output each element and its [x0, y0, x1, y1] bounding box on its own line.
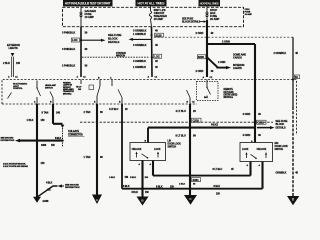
svg-text:WAGON: WAGON	[116, 55, 125, 58]
headlamp switch contacts	[8, 93, 12, 99]
svg-text:2 ORN: 2 ORN	[196, 69, 204, 73]
svg-text:S308: S308	[41, 145, 47, 147]
svg-text:8 BLK: 8 BLK	[214, 185, 221, 188]
x97/x112 internals	[99, 80, 101, 87]
svg-text:C210: C210	[193, 119, 200, 123]
svg-text:8 BLK: 8 BLK	[55, 138, 62, 140]
dashed divider C210 y122	[80, 121, 273, 123]
svg-text:2 BLK: 2 BLK	[3, 62, 10, 65]
svg-text:1 BLK: 1 BLK	[27, 119, 34, 122]
svg-text:8 TAN: 8 TAN	[42, 111, 49, 114]
trunk 8 LT BLU x190	[189, 104, 191, 196]
svg-text:UNLOCK: UNLOCK	[132, 149, 142, 151]
svg-text:DETAILS: DETAILS	[276, 127, 286, 130]
svg-text:1 BLK: 1 BLK	[179, 184, 186, 186]
banner HOT AT ALL TIMES right	[199, 0, 221, 6]
svg-text:LOCK: LOCK	[154, 149, 161, 151]
svg-text:LOC: LOC	[72, 38, 77, 42]
circuit breaker INST LPS	[149, 6, 151, 26]
svg-text:20 AMP: 20 AMP	[210, 17, 220, 21]
ground G308	[33, 197, 41, 203]
svg-text:DOOR LOCK: DOOR LOCK	[168, 144, 182, 146]
svg-text:150: 150	[41, 162, 46, 165]
svg-text:HOT AT ALL TIMES: HOT AT ALL TIMES	[200, 2, 219, 6]
svg-text:HOT AT ALL TIMES: HOT AT ALL TIMES	[138, 2, 166, 6]
wire 4 LT BLU x122	[121, 104, 123, 189]
svg-text:3 ORN/BLK: 3 ORN/BLK	[133, 28, 147, 32]
splice LOC on PNK/BLK	[71, 38, 79, 42]
svg-text:DETAILS: DETAILS	[108, 40, 120, 44]
svg-text:SWITCH: SWITCH	[168, 147, 177, 149]
ground arrow C	[184, 195, 197, 205]
svg-text:240: 240	[56, 111, 61, 114]
branch to see ground distribution (lower)	[38, 186, 58, 197]
svg-text:BLOCK DETAILS: BLOCK DETAILS	[182, 20, 201, 23]
svg-text:4 LT BLU: 4 LT BLU	[176, 110, 187, 113]
svg-text:1 BLK COUPE AND SEDAN: 1 BLK COUPE AND SEDAN	[3, 165, 28, 168]
svg-text:CONTROL: CONTROL	[13, 88, 23, 90]
wire PNK/BLK x81	[80, 27, 82, 77]
svg-text:ORN/BLK: ORN/BLK	[276, 172, 287, 175]
svg-text:10 AMP: 10 AMP	[245, 13, 253, 16]
svg-text:S206: S206	[198, 55, 204, 59]
arrow from ORN/BLK wire to text	[133, 33, 146, 36]
see fuse block details (in fuse box)	[182, 18, 201, 24]
svg-text:1 ORN/BLK: 1 ORN/BLK	[133, 66, 146, 69]
svg-text:CARGO: CARGO	[233, 56, 242, 59]
svg-text:8 LT BLU: 8 LT BLU	[213, 168, 223, 171]
splice S206 + interior lights feed	[206, 56, 208, 58]
svg-text:2 ORN: 2 ORN	[222, 40, 230, 44]
svg-text:8 BLK: 8 BLK	[123, 185, 130, 188]
svg-text:8 LT BLU: 8 LT BLU	[176, 135, 187, 138]
RKE module dashed box	[197, 82, 219, 101]
svg-text:DISTRIBUTION: DISTRIBUTION	[65, 187, 80, 189]
dashed ORN/BLK wire right x293	[292, 37, 294, 107]
svg-text:10 AMP: 10 AMP	[85, 15, 95, 19]
svg-text:2 ORN: 2 ORN	[196, 31, 204, 35]
svg-text:UNLOCK: UNLOCK	[257, 149, 267, 151]
svg-text:2 BLK STATION WAGON,: 2 BLK STATION WAGON,	[3, 163, 26, 166]
wire 1 BLK x37 to ground	[36, 104, 38, 197]
LH switch wires down	[141, 161, 143, 197]
big dashed box (instrument panel)	[2, 80, 297, 136]
svg-text:L/H: L/H	[168, 141, 172, 143]
svg-text:4 ORN: 4 ORN	[243, 133, 251, 137]
svg-text:3 BLK: 3 BLK	[130, 177, 137, 179]
fuse block dashed box	[63, 7, 244, 26]
see fuse block details text (mid)	[108, 33, 122, 44]
svg-text:(W/O DRL): (W/O DRL)	[63, 93, 72, 95]
svg-text:150: 150	[16, 62, 21, 65]
svg-text:HOT IN RUN, BULB TEST OR START: HOT IN RUN, BULB TEST OR START	[65, 2, 112, 6]
pin A C1	[77, 76, 87, 79]
svg-text:3 PNK/BLK: 3 PNK/BLK	[62, 47, 75, 51]
svg-text:150: 150	[41, 119, 46, 122]
svg-text:SEE GROUND: SEE GROUND	[1, 137, 15, 139]
svg-text:LIGHTS: LIGHTS	[233, 67, 242, 70]
svg-text:S210: S210	[155, 33, 162, 37]
fuse block label	[245, 9, 253, 16]
RH door lock switch	[240, 143, 273, 162]
bottom border pin letters	[34, 101, 195, 104]
fuse STOP HAZ 20 AMP	[206, 6, 208, 20]
svg-text:2 ORN/BLK: 2 ORN/BLK	[274, 52, 287, 55]
svg-text:4 LT BLU: 4 LT BLU	[109, 108, 119, 111]
svg-text:G308: G308	[43, 200, 50, 203]
svg-text:SWITCH: SWITCH	[275, 149, 284, 151]
svg-text:8 BLK: 8 BLK	[156, 185, 163, 188]
svg-text:SW: SW	[78, 89, 81, 91]
svg-text:1 ORN/BLK: 1 ORN/BLK	[133, 33, 146, 36]
inside texts left	[13, 81, 75, 95]
connector C202	[257, 120, 267, 124]
P/LKS feed horizontal	[148, 127, 255, 129]
svg-text:8 BLK: 8 BLK	[132, 192, 139, 194]
trunk wire 2 ORN x207	[206, 20, 208, 77]
svg-text:1 BLK: 1 BLK	[109, 177, 116, 179]
svg-text:25 AMP: 25 AMP	[154, 17, 164, 21]
wire ORN/BLK x151.5	[151, 27, 154, 77]
svg-text:2 PNK/BLK: 2 PNK/BLK	[62, 64, 75, 68]
svg-text:SEE GROUND: SEE GROUND	[65, 184, 79, 186]
svg-text:4 BLK: 4 BLK	[46, 182, 53, 185]
svg-text:3 ORN/BLK: 3 ORN/BLK	[133, 43, 147, 47]
wire 4 ORN x255	[254, 44, 256, 141]
horizontal 8 BLK y189.3	[122, 188, 263, 190]
svg-text:3 ORN/BLK: 3 ORN/BLK	[133, 60, 146, 63]
svg-text:LOC: LOC	[154, 54, 159, 58]
banner HOT AT ALL TIMES left	[136, 0, 167, 6]
svg-text:SWITCH: SWITCH	[45, 87, 53, 89]
svg-text:R/H: R/H	[275, 143, 279, 145]
svg-text:2 ORN: 2 ORN	[218, 61, 226, 64]
LH door lock switch	[130, 143, 166, 161]
svg-text:3 PNK/BLK: 3 PNK/BLK	[62, 31, 75, 35]
svg-text:CONNECTOR: CONNECTOR	[68, 134, 83, 137]
svg-text:S331: S331	[193, 178, 200, 182]
ground arrow D	[287, 196, 299, 205]
ground wire horizontal w/ arrow	[20, 140, 63, 142]
svg-text:LIGHTS: LIGHTS	[9, 46, 18, 50]
exterior lights feed left	[7, 43, 20, 50]
x81 entry internals	[80, 80, 82, 85]
branch 2 ORN to x255	[207, 43, 255, 45]
x122 internals	[118, 90, 122, 98]
horizontal 8 LT BLU y175.6	[153, 175, 251, 177]
svg-text:2 TAN: 2 TAN	[84, 111, 91, 114]
svg-text:A: A	[96, 198, 98, 202]
svg-text:LOCK: LOCK	[242, 149, 249, 151]
wire 2 TAN x97 to ground A	[96, 104, 98, 195]
station wagon dashed branch	[82, 56, 149, 58]
x190 internals	[187, 90, 191, 98]
svg-text:4 ORN: 4 ORN	[243, 112, 251, 116]
svg-text:P/LKS: P/LKS	[211, 124, 218, 127]
wire 8 TAN x53 to tailgate connector	[52, 104, 54, 124]
svg-text:1 TAN: 1 TAN	[84, 156, 91, 159]
svg-text:DISTRIBUTION: DISTRIBUTION	[1, 140, 15, 142]
svg-text:MODULE: MODULE	[224, 97, 234, 99]
fuse GAUGES 10 AMP	[80, 6, 82, 26]
svg-text:DOOR LOCK: DOOR LOCK	[275, 146, 289, 148]
banner HOT IN RUN	[63, 0, 113, 6]
dashed divider y37	[154, 36, 293, 38]
